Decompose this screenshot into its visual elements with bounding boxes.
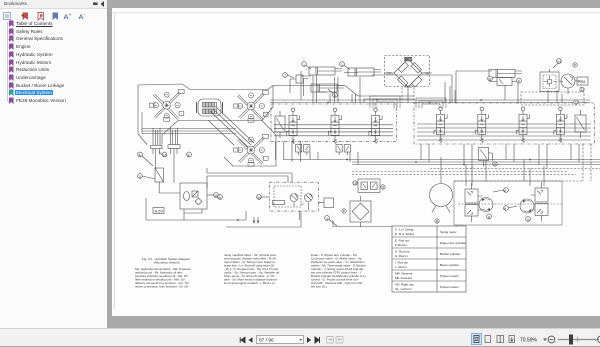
FERRI tag xyxy=(577,77,588,85)
svg-text:70.59%: 70.59% xyxy=(520,337,538,343)
svg-text:16: 16 xyxy=(163,153,167,157)
spool V1 xyxy=(286,108,299,143)
spool V2 xyxy=(328,108,341,143)
bookmarks panel xyxy=(0,0,107,329)
drops bank-left to runs xyxy=(276,141,359,164)
wire top feed xyxy=(273,86,358,97)
control box J xyxy=(540,69,563,92)
pilot pair PP2 xyxy=(336,145,350,156)
bank bus lines right xyxy=(417,124,591,140)
cylinder drop wires xyxy=(313,75,360,103)
svg-text:OR. Right turn: OR. Right turn xyxy=(395,283,415,287)
svg-text:lic oil and engine coolant) -: lic oil and engine coolant) - I. Boom cy… xyxy=(224,281,276,285)
callout A xyxy=(138,152,153,166)
bridge drops xyxy=(407,87,409,103)
dashed link top right xyxy=(521,92,584,105)
routing frame xyxy=(301,71,358,100)
tank drop to filter xyxy=(156,148,175,183)
pilot pair PP1 xyxy=(296,145,310,156)
pump drop and arrows xyxy=(253,211,300,223)
spool V6 xyxy=(516,107,529,142)
svg-text:Propel motors: Propel motors xyxy=(440,285,459,289)
document page xyxy=(112,8,600,316)
tree line xyxy=(0,20,107,180)
svg-text:Bucket cylinder: Bucket cylinder xyxy=(440,252,460,256)
svg-text:H. Rod in: H. Rod in xyxy=(395,254,408,258)
slider xyxy=(558,339,599,341)
callout 5 xyxy=(328,89,337,98)
svg-text:D. R.H. Swing: D. R.H. Swing xyxy=(395,232,414,236)
spool V5 xyxy=(475,107,488,142)
oil cooler unit xyxy=(180,183,207,220)
svg-text:F: F xyxy=(343,210,345,214)
svg-text:E. Rod out: E. Rod out xyxy=(395,239,409,243)
filter F2 xyxy=(342,196,371,227)
drops bank-right to runs xyxy=(421,144,579,169)
propel valve blocks R xyxy=(531,182,548,222)
caption text column 1 xyxy=(135,257,191,289)
callout N xyxy=(488,76,493,81)
view mode icons xyxy=(472,334,482,345)
svg-text:-: - xyxy=(84,12,86,17)
callout W xyxy=(257,195,270,200)
callout 8 xyxy=(487,214,492,219)
bank bus lines left xyxy=(274,125,393,136)
svg-text:F. Rod in: F. Rod in xyxy=(395,243,407,247)
svg-text:MF. Forward: MF. Forward xyxy=(395,276,412,280)
propel motor ML xyxy=(479,198,493,212)
callout B1 xyxy=(218,195,223,200)
callout E xyxy=(187,152,192,157)
history arrows (disabled) xyxy=(327,337,344,344)
svg-text:FZM: FZM xyxy=(578,80,585,84)
top right feeds xyxy=(445,82,562,103)
cylinder C1 xyxy=(309,67,342,75)
return lines left xyxy=(142,112,236,134)
callout 11 xyxy=(580,87,584,92)
callout F xyxy=(517,78,522,83)
propel motors box xyxy=(454,181,562,225)
svg-text:G. Rod out: G. Rod out xyxy=(395,250,410,254)
svg-text:return connection from service: return connection from services - Dr: Oi… xyxy=(135,285,188,289)
svg-text:M: M xyxy=(215,194,218,198)
svg-text:7: 7 xyxy=(284,74,286,78)
status bar xyxy=(0,328,600,346)
first page button xyxy=(240,337,245,343)
callout 9 xyxy=(526,217,531,222)
svg-text:A.5V: A.5V xyxy=(155,209,164,214)
callout MR xyxy=(493,188,508,193)
svg-text:87 / 96: 87 / 96 xyxy=(259,338,274,344)
svg-text:3: 3 xyxy=(139,175,141,179)
svg-text:+: + xyxy=(69,12,72,17)
svg-text:W: W xyxy=(258,196,262,200)
svg-text:11: 11 xyxy=(581,88,585,92)
svg-text:I. Rod out: I. Rod out xyxy=(395,261,408,265)
junction dots xyxy=(327,99,482,103)
riser x505 xyxy=(504,85,506,100)
svg-text:left turn OL).: left turn OL). xyxy=(311,285,328,289)
svg-text:OL. Left turn: OL. Left turn xyxy=(395,287,412,291)
small valve N xyxy=(290,75,303,93)
crossover valve xyxy=(353,179,385,192)
page field xyxy=(257,336,304,344)
left valve bank box xyxy=(271,104,397,141)
suction drop lines xyxy=(153,128,178,145)
svg-text:(Monobloc version).: (Monobloc version). xyxy=(154,261,181,265)
pump group P3 xyxy=(234,134,269,166)
svg-text:C. L.H. Swing: C. L.H. Swing xyxy=(395,228,414,232)
svg-text:10: 10 xyxy=(353,182,357,186)
svg-text:1: 1 xyxy=(341,63,343,67)
junction dots runs xyxy=(237,159,531,221)
propel valve blocks L xyxy=(465,183,482,222)
svg-text:1: 1 xyxy=(303,63,305,67)
spool V3 xyxy=(369,108,382,143)
bridge bottom exits xyxy=(402,88,414,104)
callout D xyxy=(574,100,578,105)
callout 4 xyxy=(325,216,337,226)
load-test bridge xyxy=(384,56,432,89)
svg-text:M: M xyxy=(504,207,507,211)
callout P2 xyxy=(573,63,577,68)
main pump MP xyxy=(561,74,581,94)
callout M xyxy=(207,193,218,198)
pump return line xyxy=(226,211,301,227)
callout 3 xyxy=(138,174,155,179)
callout MF xyxy=(504,206,518,211)
pressure reducing valve PR xyxy=(479,148,498,167)
prev page button xyxy=(249,337,253,343)
callout 14 xyxy=(553,59,561,68)
last page xyxy=(315,337,320,343)
top-right valve N2 xyxy=(489,78,518,104)
pump unit U xyxy=(270,182,319,211)
filter F1 xyxy=(155,168,180,193)
suction manifold bar B xyxy=(168,145,180,154)
cylinder C4 xyxy=(489,70,522,78)
svg-text:9: 9 xyxy=(527,218,529,222)
svg-text:Boom cylinder: Boom cylinder xyxy=(440,263,459,267)
cylinder C3 xyxy=(311,84,344,92)
pump group P2 xyxy=(234,90,269,122)
relief valve left-end xyxy=(275,111,285,138)
svg-text:LOAD: LOAD xyxy=(405,58,414,62)
next page xyxy=(307,337,311,343)
svg-text:N: N xyxy=(489,77,492,81)
cylinder C2 xyxy=(348,68,381,76)
pilot bus crossers xyxy=(270,100,590,103)
label APW xyxy=(153,208,164,214)
nested elbows A xyxy=(370,96,400,108)
svg-text:Propel motors: Propel motors xyxy=(440,274,459,278)
diagonal feeds to pumps xyxy=(208,107,254,147)
scan page border top xyxy=(112,12,600,14)
engine E xyxy=(197,99,223,116)
callout 1b xyxy=(340,62,350,70)
caption text column 3 xyxy=(311,253,366,289)
callout 16 xyxy=(162,152,167,157)
legend table xyxy=(392,226,466,292)
spool V4 xyxy=(434,107,447,142)
top interconnects xyxy=(358,71,492,103)
main pressure runs xyxy=(283,160,600,165)
callout 7 xyxy=(283,73,294,78)
svg-text:L. Rod in: L. Rod in xyxy=(395,265,407,269)
propel motor MR xyxy=(520,199,534,213)
right valve bank box xyxy=(414,103,595,144)
bottom long run xyxy=(333,220,457,227)
svg-text:4: 4 xyxy=(326,217,328,221)
svg-text:M: M xyxy=(504,189,507,193)
swing motor SM xyxy=(430,157,453,224)
long return bottom-left xyxy=(146,198,246,220)
svg-text:MR. Reverse: MR. Reverse xyxy=(395,272,413,276)
bookmark rows xyxy=(0,20,107,28)
pump group P1 xyxy=(149,89,184,121)
relief valve right-end xyxy=(575,110,586,138)
machine body outline xyxy=(138,84,276,166)
callout 1a xyxy=(302,62,311,69)
svg-text:8: 8 xyxy=(488,215,490,219)
svg-text:Dipper arm cylinder: Dipper arm cylinder xyxy=(440,241,466,245)
spool V7 xyxy=(554,107,567,142)
propel feed drops xyxy=(466,160,544,187)
suction manifold bar A xyxy=(151,145,162,154)
nested elbows B xyxy=(416,98,446,108)
pump outlet block xyxy=(324,198,334,208)
caption text column 2 xyxy=(224,253,279,285)
scan page border left xyxy=(114,13,116,311)
dashed risers right xyxy=(454,144,591,181)
svg-text:Swing motor: Swing motor xyxy=(440,230,457,234)
